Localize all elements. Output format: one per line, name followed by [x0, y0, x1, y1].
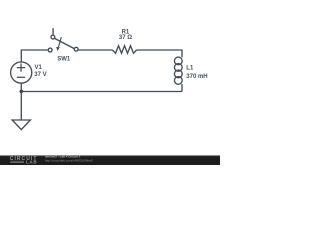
wire inductor bottom: [181, 84, 183, 91]
wire node B to ground: [20, 92, 22, 121]
watermark bar: [0, 155, 220, 165]
ground: [12, 120, 30, 130]
switch SW1 pole terminal: [48, 48, 52, 52]
svg-text:37 Ω: 37 Ω: [119, 35, 132, 41]
voltage source V1: [11, 62, 32, 83]
switch SW1 throw terminal right: [74, 47, 78, 51]
wire resistor to inductor top: [137, 50, 183, 57]
svg-text:370 mH: 370 mH: [186, 74, 207, 80]
node B junction dot: [20, 90, 24, 94]
CircuitLab logo lines: [10, 161, 24, 162]
V1 plus sign: [17, 63, 25, 71]
wire bottom rail: [21, 91, 182, 93]
svg-text:L1: L1: [186, 65, 194, 71]
svg-text:37 V: 37 V: [34, 72, 46, 78]
V1 minus sign: [17, 76, 25, 78]
svg-text:SW1: SW1: [57, 56, 71, 62]
switch SW1 lever: [54, 38, 75, 49]
inductor L1: [174, 57, 182, 84]
svg-text:V1: V1: [35, 65, 43, 71]
wire switch to resistor: [78, 49, 112, 51]
switch SW1 arrowhead: [56, 47, 60, 51]
wire V1 top to switch (node A): [21, 50, 48, 62]
svg-text:http://circuitlab.com/c/69f52c: http://circuitlab.com/c/69f52c98ea5: [45, 159, 93, 163]
switch SW1 throw terminal top: [51, 35, 55, 39]
wire V1 bottom to node B: [20, 83, 22, 91]
resistor R1: [113, 46, 137, 54]
switch SW1 actuator arrow: [59, 37, 62, 47]
svg-text:LAB: LAB: [26, 160, 37, 165]
switch SW1 top stub: [52, 28, 54, 35]
